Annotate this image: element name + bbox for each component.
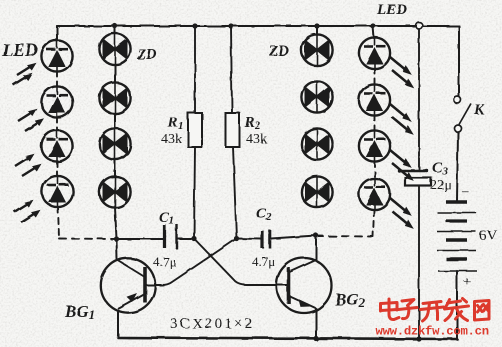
wire R2 top drop [231, 26, 232, 113]
wire LED column 2 bottom dashed drop [373, 210, 374, 237]
junction dot top rail at ZD1 [112, 23, 117, 28]
wire ZD column 1 top stub [114, 26, 116, 34]
light arrows for LED D8 [390, 198, 412, 216]
switch K [454, 97, 471, 133]
svg-text:K: K [473, 102, 485, 118]
wire C3 bottom drop to bottom rail [418, 186, 420, 339]
light arrows for LED D2 [18, 109, 38, 121]
junction dot top rail at ZD2 [314, 23, 319, 28]
LED D6 (right column) [359, 84, 390, 115]
wire rail junction to C1 left plate [117, 238, 164, 240]
light arrows for LED D6 [390, 104, 412, 122]
wire dashed rail BG2 junction to LED2 column [316, 235, 373, 238]
wire BG1 emitter drop [117, 312, 119, 338]
wire top rail [57, 25, 459, 27]
wire node A to BG2 base (cross coupling) [194, 239, 287, 286]
zener ZD6 (right column) [301, 81, 332, 112]
svg-text:–: – [461, 184, 470, 199]
LED D2 (left column) [41, 86, 72, 117]
junction dot node B [234, 236, 239, 241]
svg-text:ZD: ZD [268, 44, 289, 60]
junction dot node A [191, 236, 196, 241]
svg-text:4.7μ: 4.7μ [252, 254, 275, 269]
junction dot top rail at R2 [228, 23, 233, 28]
wire C2 right plate to BG2 collector junction [271, 236, 316, 239]
capacitor C3 (electrolytic) [397, 169, 431, 186]
light arrows for LED D1 [17, 63, 37, 75]
wire ZD column 1 bottom to rail junction [115, 208, 117, 240]
junction dot top rail at R1 [192, 23, 197, 28]
wire switch to battery top [457, 132, 458, 201]
LED D1 (left column) [41, 40, 72, 71]
LED D3 (left column) [41, 130, 72, 161]
wire C1 right plate to node A [177, 238, 194, 240]
wire dashed rail LED1 to ZD1 bottom [59, 238, 116, 241]
battery B 6V [437, 202, 477, 271]
svg-text:+: + [463, 275, 471, 290]
watermark chinese characters (red) [381, 299, 490, 322]
wire C3 branch top (terminal to C3) [418, 29, 420, 170]
resistor R2 [226, 113, 240, 147]
svg-text:LED: LED [376, 2, 407, 18]
svg-text:43k: 43k [161, 132, 182, 147]
wire LED column 1 bottom dashed drop [58, 207, 59, 238]
junction dot top rail at LED2 [370, 23, 375, 28]
wire BG1 collector riser [116, 239, 119, 259]
capacitor C1 [165, 224, 177, 249]
svg-text:3CX201×2: 3CX201×2 [170, 316, 254, 332]
zener ZD1 (left column) [99, 33, 130, 64]
wire node B to BG1 base (cross coupling) [147, 239, 237, 286]
light arrows for LED D5 [390, 57, 412, 75]
zener ZD2 (left column) [99, 82, 130, 113]
svg-text:43k: 43k [246, 132, 267, 147]
LED D8 (right column) [359, 178, 390, 209]
wire battery bottom drop [456, 271, 458, 339]
light arrows for LED D4 [14, 200, 34, 212]
svg-text:LED: LED [1, 40, 38, 60]
light arrows for LED D3 [15, 154, 35, 166]
zener ZD8 (right column) [301, 176, 332, 207]
zener ZD3 (left column) [99, 128, 130, 159]
LED D4 (left column) [42, 176, 73, 207]
resistor R1 [188, 113, 202, 147]
terminal open circle on top rail [416, 22, 423, 29]
junction dot node collector BG1 [114, 236, 119, 241]
wire LED column 1 dashed segments [56, 72, 58, 87]
transistor BG2 [277, 258, 332, 313]
capacitor C2 [263, 230, 271, 249]
svg-text:4.7μ: 4.7μ [153, 254, 176, 269]
wire ZD column 2 top stub [316, 26, 318, 35]
wire R1 top drop [194, 26, 196, 113]
wire LED column 2 dashed segments [374, 69, 376, 85]
LED D5 (right column) [359, 37, 390, 68]
wire BG2 emitter drop [315, 309, 317, 339]
zener ZD5 (right column) [301, 34, 332, 65]
wire R2 bottom to node B [233, 147, 237, 239]
zener ZD4 (left column) [99, 176, 130, 207]
watermark char wang [475, 301, 490, 321]
watermark char dian [381, 299, 400, 320]
junction dot bottom rail at BG2 emitter [313, 336, 318, 341]
transistor BG1 [101, 258, 155, 312]
LED D7 (right column) [359, 130, 390, 161]
svg-text:ZD: ZD [136, 47, 157, 63]
junction dot bottom rail at C3 branch [416, 336, 421, 341]
wire bottom rail [118, 338, 457, 340]
wire R1 bottom to node A [194, 147, 195, 239]
watermark char kai [421, 302, 444, 322]
wire node B to C2 left plate [237, 238, 262, 241]
watermark char fa [445, 299, 469, 321]
svg-text:22μ: 22μ [430, 178, 452, 193]
junction dot node collector BG2 [313, 233, 318, 238]
svg-text:6V: 6V [479, 228, 498, 244]
zener ZD7 (right column) [301, 128, 332, 159]
wire LED column 1 top stub [56, 26, 58, 41]
watermark char zi [399, 300, 418, 319]
light arrows for LED D7 [390, 150, 412, 168]
wire BG2 collector riser [315, 236, 317, 260]
wire LED column 2 top stub [373, 26, 374, 38]
wire top-right corner down to switch [458, 26, 460, 97]
wire ZD column 1 segments [114, 65, 116, 83]
svg-text:www.dzkfw.com.cn: www.dzkfw.com.cn [376, 325, 489, 339]
